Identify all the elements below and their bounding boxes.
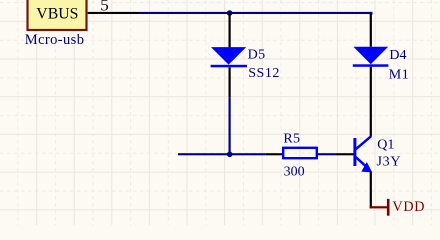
transistor Q1 (353, 136, 372, 172)
wire D5 cathode down to base net (229, 97, 231, 154)
wire base net horizontal (178, 153, 266, 155)
wire Q1 emitter down (370, 172, 372, 208)
svg-text:Mcro-usb: Mcro-usb (25, 32, 85, 48)
label M1 (389, 67, 409, 82)
wire top net (pin5 to D4) (139, 12, 372, 14)
power port VDD (370, 199, 390, 216)
label 300 (284, 165, 305, 180)
svg-text:300: 300 (284, 165, 305, 180)
diode D5 (211, 47, 247, 67)
diode D5 cathode pin (229, 67, 231, 97)
transistor Q1 base pin (336, 153, 354, 155)
pin 5 of VBUS connector (88, 0, 139, 14)
svg-text:5: 5 (100, 0, 109, 14)
label R5 (283, 132, 300, 147)
wire D4 drop (top right corner) (370, 12, 373, 15)
label VBUS (36, 6, 78, 23)
svg-text:M1: M1 (389, 67, 409, 82)
wire R5 to Q1 base (318, 153, 336, 155)
junction base node (227, 152, 233, 158)
svg-text:VDD: VDD (392, 199, 425, 215)
junction top node (227, 10, 233, 16)
svg-text:D4: D4 (389, 48, 406, 63)
wire D4 cathode to Q1 collector (370, 67, 372, 137)
svg-text:Q1: Q1 (377, 138, 394, 153)
label Mcro-usb (25, 32, 85, 48)
resistor R5 left pin (266, 153, 283, 155)
label SS12 (248, 66, 280, 81)
svg-text:SS12: SS12 (248, 66, 280, 81)
diode D4 (353, 47, 389, 67)
diode D4 anode pin (370, 14, 372, 47)
label D5 (248, 48, 266, 63)
connector VBUS (Mcro-usb) body (28, 0, 87, 30)
resistor R5 (283, 148, 317, 158)
svg-text:VBUS: VBUS (36, 6, 78, 23)
svg-text:D5: D5 (248, 48, 266, 63)
label J3Y (377, 155, 402, 170)
diode D5 anode pin (229, 13, 231, 47)
svg-text:R5: R5 (283, 132, 300, 147)
label Q1 (377, 138, 394, 153)
label VDD (392, 199, 425, 215)
label D4 (389, 48, 406, 63)
svg-text:J3Y: J3Y (377, 155, 402, 170)
